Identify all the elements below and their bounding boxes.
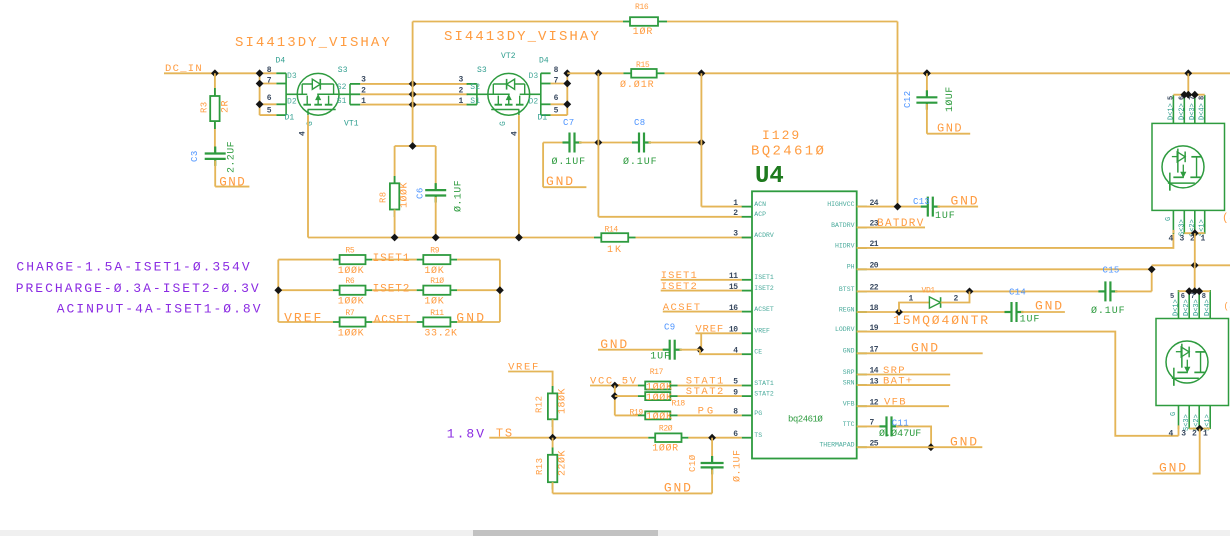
svg-text:ACDRV: ACDRV [754,232,774,239]
svg-text:R8: R8 [379,191,389,203]
wire R8 C6 top link [395,145,436,147]
svg-text:3: 3 [1181,430,1186,439]
svg-text:BATDRV: BATDRV [877,218,925,230]
svg-text:ACSET: ACSET [754,306,774,313]
svg-text:PH: PH [847,264,855,271]
svg-text:8: 8 [554,66,559,75]
svg-text:C12: C12 [903,90,913,108]
wire VREF to CE [700,333,702,349]
M1 drain tie wire [1173,94,1204,96]
svg-text:S1: S1 [470,97,480,106]
U4 left pin 11 ISET1 [742,279,752,281]
wire switch node vertical to R16 [412,22,414,147]
capacitor C3 [205,152,226,154]
svg-text:VREF: VREF [284,311,323,326]
svg-text:1ØØK: 1ØØK [399,182,411,208]
wire VT1 gate [307,115,309,237]
svg-text:SI4413DY_VISHAY: SI4413DY_VISHAY [444,29,601,45]
svg-text:1ØUF: 1ØUF [944,86,956,112]
svg-text:R1Ø: R1Ø [430,277,444,286]
U4 left pin 3 ACDRV [742,237,752,239]
svg-text:D<1>: D<1> [1173,299,1181,316]
net label GND pin17 [857,352,983,354]
U4 left pin 10 VREF [742,332,752,334]
svg-text:VREF: VREF [754,328,770,335]
svg-text:8: 8 [1199,96,1207,100]
svg-text:1ØØK: 1ØØK [646,411,673,423]
svg-text:1ØK: 1ØK [424,296,444,308]
svg-text:R5: R5 [345,247,354,256]
svg-text:GND: GND [546,174,575,189]
svg-text:PG: PG [754,410,762,417]
svg-text:S2: S2 [337,83,347,92]
svg-text:2: 2 [1192,430,1197,439]
net label GND at C13 [938,206,979,208]
svg-text:R7: R7 [345,309,354,318]
wire TS row [489,437,648,439]
wire TTC to THERMAPAD [896,426,931,447]
svg-text:GND: GND [843,348,855,355]
svg-text:7: 7 [554,76,559,85]
svg-text:D<2>: D<2> [1178,103,1186,120]
U4 left pin 8 PG [742,414,752,416]
svg-text:GND: GND [1159,461,1188,476]
resistor R5 and R9 row ISET1 [278,259,333,261]
svg-text:Ø.1UF: Ø.1UF [552,156,587,168]
svg-text:S3: S3 [477,66,487,75]
svg-text:SI4413DY_VISHAY: SI4413DY_VISHAY [235,35,392,51]
svg-text:3: 3 [459,76,464,85]
svg-text:3: 3 [733,230,738,239]
resistor R8 [394,146,396,183]
svg-text:BTST: BTST [839,286,855,293]
svg-text:ACP: ACP [754,211,766,218]
svg-text:D3: D3 [529,72,539,81]
svg-text:8: 8 [1202,293,1206,301]
wire VT2 gate [518,115,520,237]
capacitor C11 [857,425,882,427]
svg-text:U4: U4 [755,163,784,190]
svg-text:VFB: VFB [884,397,907,409]
svg-text:1UF: 1UF [935,211,956,222]
svg-text:1: 1 [1201,235,1206,244]
svg-text:CHARGE-1.5A-ISET1-Ø.354V: CHARGE-1.5A-ISET1-Ø.354V [16,259,251,274]
svg-text:1: 1 [1203,430,1208,439]
svg-text:D<3>: D<3> [1193,299,1201,316]
U4 left pin 6 TS [742,437,752,439]
svg-text:C15: C15 [1103,266,1120,276]
svg-text:C14: C14 [1009,288,1026,298]
transistor VT2 SI4413DY mirrored [467,73,551,115]
svg-text:TS: TS [754,432,762,439]
svg-text:GND: GND [600,337,629,352]
M1 source tie wire [1184,232,1204,234]
wire DC_IN rail junction R3 [211,69,219,77]
svg-text:1.8V: 1.8V [447,426,486,441]
svg-text:D1: D1 [538,114,548,123]
svg-text:REGN: REGN [839,306,855,313]
svg-text:15MQØ4ØNTR: 15MQØ4ØNTR [893,313,990,328]
svg-text:VT2: VT2 [501,52,516,61]
net label SRP [857,374,951,376]
wire M2 source to GND [1153,429,1200,474]
wire HIDRV to upper FET gate [857,230,1174,248]
wire VT1 source rows [360,83,467,85]
svg-text:18ØK: 18ØK [557,388,569,414]
svg-text:C8: C8 [634,118,645,128]
svg-text:D<4>: D<4> [1199,103,1207,120]
svg-text:D2: D2 [287,98,297,107]
capacitor C7 [568,133,570,153]
U4 left pin 1 ACN [742,206,752,208]
scrollbar thumb [473,530,658,536]
svg-text:3: 3 [1180,235,1185,244]
U4 right pin 13 SRN [857,384,867,386]
svg-text:GND: GND [911,341,940,356]
svg-text:S2: S2 [470,83,480,92]
wire VT2 drain to R15 [567,72,623,74]
svg-text:ISET2: ISET2 [373,283,411,295]
svg-text:6: 6 [554,94,559,103]
svg-text:R9: R9 [430,247,439,256]
svg-text:R2Ø: R2Ø [659,424,673,433]
svg-text:GND: GND [950,434,979,449]
wire C7 to GND [542,143,544,188]
svg-text:D<4>: D<4> [1204,299,1212,316]
U4 left pin 5 STAT1 [742,385,752,387]
svg-text:2: 2 [954,295,959,304]
svg-text:PRECHARGE-Ø.3A-ISET2-Ø.3V: PRECHARGE-Ø.3A-ISET2-Ø.3V [16,281,261,296]
svg-text:D1: D1 [285,114,295,123]
wire GND bottom row [553,492,713,494]
svg-text:VD1: VD1 [922,287,936,296]
svg-text:ACSET: ACSET [374,315,412,327]
net label ISET1 at U4 [661,279,742,281]
svg-text:G: G [1165,217,1173,221]
svg-text:R13: R13 [535,458,545,475]
svg-text:Ø.1UF: Ø.1UF [623,156,658,168]
svg-text:R12: R12 [535,396,545,413]
svg-text:BATDRV: BATDRV [831,222,855,229]
net label VCC_5V [590,385,638,387]
diode VD1 15MQ040NTR [857,311,1005,313]
svg-text:G: G [499,121,508,126]
net label VFB [857,405,949,407]
M2 source tie wire [1189,428,1210,430]
svg-text:S1: S1 [337,97,347,106]
svg-text:7: 7 [267,76,272,85]
capacitor C6 [435,146,437,188]
svg-text:STAT2: STAT2 [754,391,774,398]
resistor R20 [648,437,655,439]
svg-text:HIDRV: HIDRV [835,242,855,249]
svg-text:R17: R17 [650,368,664,377]
svg-text:bq2461Ø: bq2461Ø [788,415,823,425]
net label GND at C14 [1021,311,1065,313]
scrollbar track [0,530,1230,536]
U4 right pin 17 GND [857,352,867,354]
svg-text:ACINPUT-4A-ISET1-Ø.8V: ACINPUT-4A-ISET1-Ø.8V [57,301,263,316]
svg-text:6: 6 [267,94,272,103]
wire C7 C8 row [543,142,564,144]
svg-text:ACN: ACN [754,201,766,208]
svg-text:1: 1 [459,97,464,106]
svg-text:ISET2: ISET2 [661,281,698,293]
svg-text:R15: R15 [636,61,650,70]
resistor R18 [615,395,638,397]
net label ISET2 at U4 [661,290,742,292]
svg-text:GND: GND [456,311,486,326]
U4 left pin 2 ACP [742,216,752,218]
capacitor C12 [923,69,931,77]
svg-text:1ØØK: 1ØØK [338,296,365,308]
svg-text:(S: (S [1224,302,1230,312]
svg-text:STAT2: STAT2 [686,386,725,398]
transistor M2 lower right SI4413DY module [1156,319,1229,406]
svg-text:GND: GND [219,175,246,189]
net label GND at C12 [927,133,970,135]
svg-text:CE: CE [754,349,762,356]
capacitor C14 [1010,302,1012,322]
wire LODRV to lower FET gate [857,332,1179,436]
svg-text:VFB: VFB [843,401,855,408]
svg-text:D<3>: D<3> [1189,103,1197,120]
svg-text:2: 2 [459,87,464,96]
svg-text:Ø.Ø1R: Ø.Ø1R [620,79,655,91]
svg-text:VREF: VREF [695,324,724,336]
wire C7 to C8 [579,142,635,144]
U4 right pin 14 SRP [857,374,867,376]
wire R15 to rail right [665,72,1230,74]
resistor R17 [638,385,645,387]
U4 right pin 18 REGN [857,311,867,313]
U4 right pin 19 LODRV [857,331,867,333]
resistor R19 [615,414,638,416]
svg-text:R3: R3 [200,101,210,113]
U4 right pin 21 HIDRV [857,247,867,249]
resistor R16 [413,21,623,23]
wire HIGHVCC row [857,206,923,208]
resistor R12 [552,386,554,393]
svg-text:1: 1 [909,295,914,304]
svg-text:(S: (S [1222,213,1230,225]
wire BTST row [857,290,1099,292]
U4 right pin 25 THERMAPAD [857,446,867,448]
net label VREF at U4 pin10 [695,332,741,334]
resistor R13 [552,438,554,455]
svg-text:1ØØK: 1ØØK [338,265,365,277]
svg-text:SRP: SRP [843,369,855,376]
capacitor C9 [598,349,665,351]
wire R16 to HIGHVCC [667,21,898,23]
svg-text:GND: GND [937,122,963,136]
svg-text:R11: R11 [430,309,444,318]
svg-text:4: 4 [1169,235,1174,244]
U4 right pin 20 PH [857,268,867,270]
U4 right pin 12 VFB [857,405,867,407]
svg-text:1ØØK: 1ØØK [338,328,365,340]
svg-text:C3: C3 [190,150,200,162]
svg-text:TTC: TTC [843,421,855,428]
U4 right pin 23 BATDRV [857,226,867,228]
svg-text:THERMAPAD: THERMAPAD [819,442,854,449]
wire gate row [308,237,594,239]
IC U4 BQ24610 body [752,191,857,458]
VT1 D pin tie wire [259,73,261,115]
svg-text:22ØK: 22ØK [557,450,569,476]
svg-text:BAT+: BAT+ [883,375,913,387]
svg-text:D2: D2 [529,98,539,107]
svg-text:I129: I129 [762,128,801,143]
svg-text:1ØØR: 1ØØR [652,443,679,455]
svg-text:C6: C6 [416,187,426,199]
svg-text:G: G [1170,412,1178,416]
M2 drain tie wire [1179,290,1211,292]
svg-text:ACSET: ACSET [663,302,702,314]
svg-text:Ø.1UF: Ø.1UF [732,449,744,482]
U4 left pin 15 ISET2 [742,290,752,292]
ISET divider network [277,260,279,322]
svg-text:D<1>: D<1> [1167,103,1175,120]
svg-text:5: 5 [554,106,559,115]
svg-text:1: 1 [733,199,738,208]
svg-text:GND: GND [1035,299,1064,314]
svg-text:HIGHVCC: HIGHVCC [827,201,854,208]
svg-text:5: 5 [1167,96,1175,100]
svg-text:C7: C7 [563,118,574,128]
wire C15 to PH [1115,290,1152,292]
wire C8 to ACN vertical [649,142,702,144]
wire VCC_5V vertical [614,386,616,416]
svg-text:VT1: VT1 [344,120,359,129]
svg-text:C1Ø: C1Ø [688,454,698,472]
svg-text:2R: 2R [221,100,232,113]
transistor M1 upper right SI4413DY module [1152,123,1225,210]
svg-text:C13: C13 [913,197,930,207]
resistor R6 and R10 row ISET2 [278,289,333,291]
svg-text:R6: R6 [345,277,354,286]
svg-text:S3: S3 [338,66,348,75]
capacitor C15 [1104,281,1106,301]
svg-text:ISET1: ISET1 [373,253,411,265]
svg-text:PG: PG [698,406,717,418]
svg-text:2: 2 [733,209,738,218]
svg-text:1ØR: 1ØR [633,26,654,38]
resistor R7 and R11 row ACSET [278,321,333,323]
wire ACN vertical [700,73,702,206]
svg-text:2.2UF: 2.2UF [227,141,238,173]
wire ACP vertical [597,73,599,217]
svg-text:D4: D4 [539,57,549,66]
svg-text:R14: R14 [605,226,619,235]
svg-text:R19: R19 [630,408,644,417]
net label GND at THERMAPAD [857,446,983,448]
svg-text:R18: R18 [672,400,686,409]
svg-text:Ø.1UF: Ø.1UF [453,180,465,212]
svg-text:8: 8 [267,66,272,75]
svg-text:GND: GND [664,481,693,496]
svg-text:5: 5 [1170,293,1174,301]
transistor VT1 SI4413DY [276,73,360,115]
svg-text:1UF: 1UF [1020,315,1041,326]
svg-text:D4: D4 [276,57,286,66]
svg-text:1K: 1K [607,245,623,256]
svg-text:7: 7 [1189,96,1197,100]
svg-text:R16: R16 [635,3,649,12]
svg-text:6: 6 [1181,293,1185,301]
svg-text:ISET1: ISET1 [754,274,774,281]
resistor R15 [624,72,632,74]
svg-text:5: 5 [267,106,272,115]
svg-text:4: 4 [299,131,308,136]
VT2 D pin tie wire [566,73,568,115]
wire PH row [857,269,1152,291]
net label BATDRV [857,226,925,228]
svg-text:D<2>: D<2> [1183,299,1191,316]
svg-text:LODRV: LODRV [835,326,855,333]
U4 left pin 16 ACSET [742,311,752,313]
capacitor C8 [638,133,640,153]
svg-text:Ø.Ø47UF: Ø.Ø47UF [879,428,921,440]
svg-text:GND: GND [951,194,980,209]
capacitor C10 [711,438,713,461]
svg-text:1UF: 1UF [650,352,671,363]
U4 left pin 9 STAT2 [742,395,752,397]
capacitor C13 [927,197,929,217]
svg-text:7: 7 [1191,293,1195,301]
svg-text:ISET2: ISET2 [754,285,774,292]
svg-text:SRN: SRN [843,380,855,387]
svg-text:33.2K: 33.2K [424,329,457,340]
svg-text:BQ2461Ø: BQ2461Ø [751,144,826,160]
net label BAT+ [857,384,951,386]
svg-text:C9: C9 [664,323,675,333]
U4 left pin 4 CE [742,353,752,355]
svg-text:Ø.1UF: Ø.1UF [1091,305,1126,317]
svg-text:1ØK: 1ØK [424,265,444,277]
resistor R14 [594,237,601,239]
U4 right pin 24 HIGHVCC [857,206,867,208]
svg-text:4: 4 [1169,430,1174,439]
net label ACSET at U4 [663,311,742,313]
svg-text:1ØØK: 1ØØK [646,392,673,404]
net label GND at C3 [215,186,249,188]
svg-text:D3: D3 [287,72,297,81]
resistor R3 [214,73,216,153]
svg-text:STAT1: STAT1 [754,380,774,387]
svg-text:6: 6 [1178,96,1186,100]
U4 right pin 22 BTST [857,290,867,292]
U4 right pin 7 TTC [857,425,867,427]
